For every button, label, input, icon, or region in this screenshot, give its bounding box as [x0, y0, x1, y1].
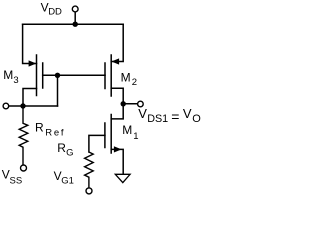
svg-text:2: 2	[132, 77, 137, 88]
wire M1 source to ground stem	[111, 149, 123, 173]
wire M2 drain down to node VO	[111, 88, 123, 104]
svg-text:G1: G1	[61, 175, 74, 186]
wire gate feedback down	[57, 75, 59, 106]
arrow M2 source (PMOS, pointing into bar)	[111, 58, 119, 64]
svg-text:M: M	[3, 68, 13, 82]
svg-text:=: =	[171, 108, 179, 124]
svg-text:1: 1	[133, 131, 138, 142]
terminal VG1	[86, 188, 92, 194]
wire M3 drain to node A	[23, 89, 37, 107]
junction dot node VO	[121, 101, 126, 106]
wire gate bus M3-M2	[43, 74, 105, 76]
svg-text:DS1: DS1	[147, 113, 168, 125]
svg-text:3: 3	[13, 75, 18, 86]
svg-text:M: M	[122, 123, 132, 137]
wire VDD terminal lead	[74, 12, 76, 24]
arrow M3 source (PMOS, pointing into bar)	[29, 60, 37, 66]
svg-text:Ref: Ref	[45, 128, 65, 139]
svg-text:SS: SS	[10, 175, 23, 186]
svg-text:V: V	[138, 106, 147, 121]
resistor RG	[85, 152, 94, 188]
wire input node horizontal	[9, 105, 58, 107]
svg-text:M: M	[121, 71, 131, 85]
wire output to terminal	[123, 103, 138, 105]
svg-text:DD: DD	[48, 7, 62, 18]
wire M1 drain up to node VO	[111, 104, 123, 119]
junction dot gate bus	[55, 73, 60, 78]
wire M1 gate to RG	[89, 135, 105, 152]
wire M2 source drop from rail	[111, 24, 123, 61]
svg-text:R: R	[35, 120, 44, 134]
junction dot node A	[20, 103, 25, 108]
transistor M2	[105, 55, 111, 96]
arrow M1 source (NMOS, pointing out)	[114, 146, 122, 152]
svg-text:V: V	[183, 106, 192, 121]
svg-text:R: R	[57, 141, 66, 155]
transistor M1	[105, 115, 111, 154]
svg-text:G: G	[66, 148, 73, 159]
ground	[115, 174, 130, 182]
svg-text:O: O	[192, 113, 201, 125]
terminal IREF input	[3, 103, 9, 109]
wire M3 source drop from rail	[23, 24, 37, 63]
wire VDD rail	[23, 23, 124, 25]
terminal VDD	[72, 6, 78, 12]
transistor M3	[37, 55, 43, 96]
terminal VSS	[21, 165, 27, 171]
terminal VO	[138, 101, 144, 107]
junction dot VDD	[73, 22, 78, 27]
resistor RRef	[19, 106, 28, 165]
